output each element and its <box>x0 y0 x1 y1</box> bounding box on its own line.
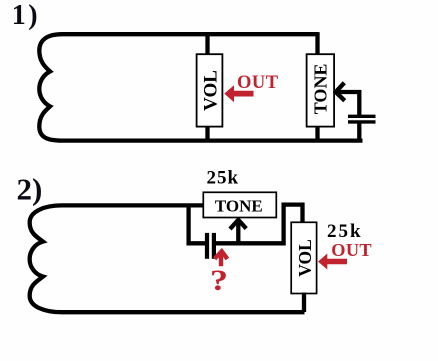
arrowhead into TONE2 <box>230 220 246 229</box>
svg-text:1): 1) <box>12 0 40 31</box>
wire VOL1 top stub <box>205 34 209 56</box>
wire top bus 1 <box>62 32 318 36</box>
potentiometer VOL1 box <box>197 54 223 126</box>
pickup coil L1 <box>39 34 62 140</box>
wire top bus 2 to TONE2 left terminal <box>62 203 204 207</box>
pickup coil L2 <box>30 205 62 312</box>
wire TONE1 top stub <box>315 32 319 56</box>
potentiometer TONE2 box <box>203 192 276 217</box>
capacitor C2 right plate <box>212 233 216 259</box>
wire ground bus 2 <box>62 310 305 314</box>
svg-text:25k: 25k <box>207 168 240 189</box>
wire C2 to VOL2 input <box>216 205 303 244</box>
wire VOL2 bottom stub <box>302 293 306 313</box>
wire TONE2 wiper stem <box>236 220 240 245</box>
wire TONE1 bottom stub <box>315 126 319 142</box>
red output arrow 1 <box>224 85 234 102</box>
svg-text:VOL: VOL <box>295 239 315 277</box>
capacitor C1 top plate <box>348 115 376 118</box>
capacitor C2 left plate <box>205 233 209 259</box>
wire VOL1 bottom stub <box>205 126 209 142</box>
arrowhead into TONE1 <box>336 83 345 101</box>
svg-text:TONE: TONE <box>215 197 263 216</box>
red question arrow at C2 <box>215 251 228 259</box>
wire C1 to ground bus <box>357 122 361 141</box>
wire ground bus 1 <box>62 138 363 142</box>
red output arrow 2 <box>318 254 327 270</box>
wire from TONE1 wiper to capacitor C1 <box>336 92 359 116</box>
svg-text:OUT: OUT <box>237 73 279 93</box>
potentiometer VOL2 box <box>291 222 316 293</box>
svg-text:2): 2) <box>17 172 43 207</box>
svg-text:TONE: TONE <box>310 64 330 115</box>
capacitor C1 bottom plate <box>348 120 376 123</box>
potentiometer TONE1 box <box>307 54 335 126</box>
svg-text:?: ? <box>210 264 228 297</box>
svg-text:OUT: OUT <box>331 240 372 260</box>
wire junction drop to capacitor C2 <box>189 205 206 243</box>
svg-text:25k: 25k <box>327 221 363 242</box>
svg-text:VOL: VOL <box>201 70 222 111</box>
